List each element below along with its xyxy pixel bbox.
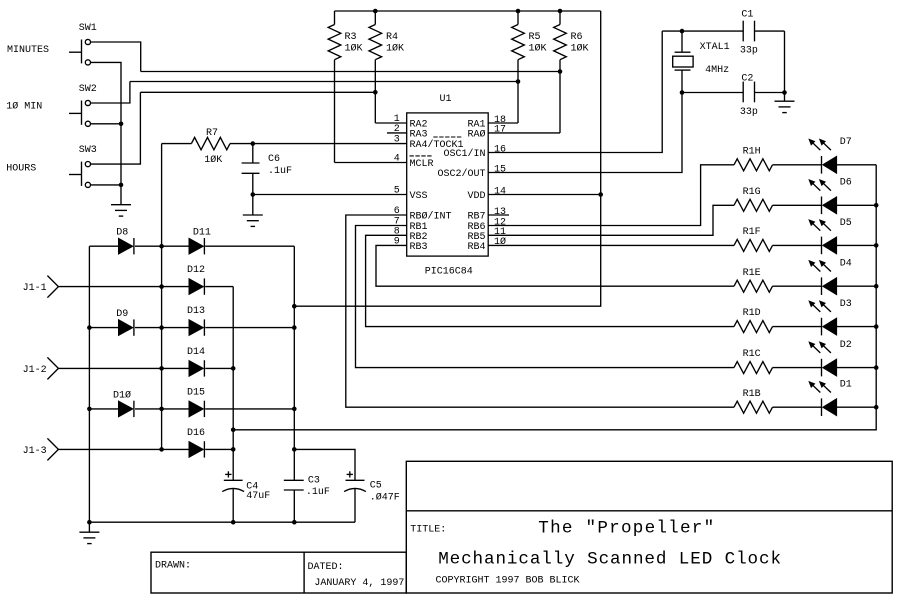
label C4 value [246,491,270,502]
ground [243,215,263,226]
pin number 1 [394,114,400,125]
wire D3 to LED bus [837,326,876,328]
junction [874,405,879,410]
LED D1 [822,398,837,416]
svg-text:15: 15 [494,164,506,175]
svg-text:R7: R7 [206,128,218,139]
label D15 [187,387,205,398]
junction [231,520,236,525]
label C2 [741,74,753,85]
wire R6 to RA0 pin17 [488,132,560,134]
label C6 value [268,166,292,177]
svg-text:MCLR: MCLR [410,159,434,170]
wire left anode bus [88,246,90,522]
junction [231,366,236,371]
wire ground bus [89,521,355,523]
wire R1D to D3 [773,326,822,328]
overline MCLR [410,155,434,157]
svg-text:COPYRIGHT 1997 BOB BLICK: COPYRIGHT 1997 BOB BLICK [436,576,580,587]
wire R4 to RA2 pin1 [375,122,406,124]
op-amp U1 PIC16C84 body [407,113,489,256]
resistor R1D [734,321,773,333]
wire RB7 pin13 stub [488,214,509,216]
svg-text:PIC16C84: PIC16C84 [425,267,473,278]
wire VDD vertical [293,246,295,480]
label D9 [116,309,128,320]
junction [680,29,685,34]
svg-text:SW3: SW3 [79,145,97,156]
pin number 14 [494,186,506,197]
svg-text:3: 3 [394,135,400,146]
label C5 [370,481,382,492]
svg-text:R1H: R1H [743,146,761,157]
svg-text:RB3: RB3 [410,242,428,253]
label U1 [440,94,452,105]
svg-text:HOURS: HOURS [6,164,36,175]
pin name OSC2/OUT [437,168,485,180]
svg-text:C3: C3 [308,475,320,486]
crystal XTAL1 [673,31,693,92]
svg-text:R5: R5 [529,32,541,43]
wire R3 to MCLR pin4 [335,162,407,164]
svg-text:OSC2/OUT: OSC2/OUT [437,168,485,180]
LED D3 [822,318,837,336]
svg-text:R3: R3 [345,32,357,43]
pin name MCLR [410,159,434,170]
pin number 8 [394,226,400,237]
svg-text:RA3: RA3 [410,129,428,140]
wire SW1 bottom contact [91,62,122,204]
junction [373,9,378,14]
label SW1 [79,23,97,34]
capacitor C4 [222,480,244,522]
svg-text:VSS: VSS [410,191,428,202]
svg-text:1ØK: 1ØK [204,154,222,166]
pin number 9 [394,236,400,247]
svg-text:D9: D9 [116,309,128,320]
ground [775,101,795,112]
wire R5 to RA1 pin18 [488,122,518,124]
pin name RB2 [410,232,428,243]
label R7 [206,128,218,139]
pin name RA0 [467,128,485,140]
svg-text:1ØK: 1ØK [386,43,404,55]
drawn-dated box [151,552,406,593]
diode D8 [118,238,134,254]
label C2 value [740,107,758,118]
wire R1F to D5 [773,244,822,246]
pin name VDD [467,191,485,202]
junction [159,284,164,289]
svg-text:D15: D15 [187,387,205,398]
svg-text:R6: R6 [571,32,583,43]
pin number 4 [394,154,400,165]
wire D2 to LED bus [837,367,876,369]
svg-text:RB4: RB4 [467,242,485,253]
LED D2 [822,359,837,377]
pin name RB3 [410,242,428,253]
label R4 value [386,43,404,55]
svg-text:4: 4 [394,154,400,165]
wire net SW2 to R5 [130,81,518,83]
wire RB0 to R1B row [346,215,734,407]
junction [558,9,563,14]
pin name RB6 [467,222,485,233]
svg-text:DATED:: DATED: [308,562,344,573]
wire D11 cathode [205,245,294,247]
pin number 12 [494,217,506,228]
pin name RB5 [467,232,485,243]
junction [231,428,236,433]
label D2 [840,340,852,351]
label HOURS [6,164,36,175]
LED D4 [822,277,837,295]
resistor R4 [369,11,382,123]
label R1E [743,268,761,279]
svg-text:RB7: RB7 [467,212,485,223]
svg-text:17: 17 [494,125,506,136]
svg-text:C6: C6 [268,154,280,165]
svg-text:D3: D3 [840,299,852,310]
pin name RA3 [410,129,428,140]
svg-text:R1E: R1E [743,268,761,279]
junction [558,69,563,74]
wire R1B to D1 [773,406,822,408]
label D13 [187,306,205,317]
title Mechanically Scanned LED Clock [438,550,782,570]
label D16 [187,428,205,439]
wire VSS pin5 [253,194,407,196]
wire D9 to mid bus [135,327,189,329]
label C5 plus [347,471,353,477]
junction [292,407,297,412]
svg-text:VDD: VDD [467,191,485,202]
svg-text:.1uF: .1uF [268,166,292,177]
pin number 7 [394,217,400,228]
svg-text:C1: C1 [741,9,753,20]
junction [874,203,879,208]
wire D4 to LED bus [837,285,876,287]
LED D7 arrows [808,139,831,151]
svg-text:4MHz: 4MHz [705,65,729,76]
switch SW2 [69,100,91,126]
diode D12 [189,278,205,294]
label 4MHz [705,65,729,76]
wire RA3 pin2 stub [387,132,407,134]
pin name RA1 [467,120,485,131]
label MINUTES [7,45,49,56]
svg-text:J1-3: J1-3 [23,446,47,457]
pin number 13 [494,207,506,218]
LED D2 arrows [808,341,831,353]
pin name RA4/TOCK1 [410,139,464,151]
svg-text:.Ø47F: .Ø47F [370,492,400,504]
wire RB1 to R1C row [356,226,735,368]
svg-text:XTAL1: XTAL1 [700,42,730,53]
wire VDD top bus [335,10,601,12]
wire D5 to LED bus [837,244,876,246]
capacitor C1 [743,21,754,42]
svg-text:The "Propeller": The "Propeller" [538,518,715,538]
svg-text:D5: D5 [840,218,852,229]
wire bus to D8 [89,245,118,247]
svg-text:47uF: 47uF [246,491,270,502]
resistor R1E [734,280,773,292]
junction [292,325,297,330]
ground [111,205,131,216]
svg-text:13: 13 [494,207,506,218]
wire RB5 to R1G row [488,205,734,235]
wire C2 to right [755,92,785,94]
svg-text:R4: R4 [386,32,398,43]
label J1-1 [23,283,47,294]
wire D6 to LED bus [837,204,876,206]
pin name OSC1/IN [443,148,485,160]
wire D1 to LED bus [837,406,876,408]
junction [87,520,92,525]
label C3 value [306,487,330,498]
resistor R3 [328,11,341,163]
resistor R1C [734,362,773,374]
svg-text:R1F: R1F [743,227,761,238]
wire LED supply vertical [232,287,234,481]
label R5 [529,32,541,43]
svg-text:RBØ/INT: RBØ/INT [410,211,452,223]
label R1D [743,308,761,319]
wire D12 cathode [205,286,233,288]
svg-text:1ØK: 1ØK [571,43,589,55]
junction [782,90,787,95]
svg-text:.1uF: .1uF [306,487,330,498]
wire D15 cathode [205,408,294,410]
svg-text:16: 16 [494,144,506,155]
svg-text:C5: C5 [370,481,382,492]
connector J1-1 [47,276,58,298]
diode D9 [118,319,134,335]
junction [373,90,378,95]
svg-text:SW2: SW2 [79,84,97,95]
label D5 [840,218,852,229]
junction [251,192,256,197]
resistor R7 [162,137,253,149]
svg-text:RAØ: RAØ [467,128,485,140]
wire R1G to D6 [773,204,822,206]
pin number 6 [394,206,400,217]
svg-text:R1B: R1B [743,389,761,400]
label SW2 [79,84,97,95]
LED D5 [822,237,837,255]
wire R1H to D7 [773,164,822,166]
wire SW1 top contact to net SW1 [91,42,141,72]
connector J1-2 [47,357,58,379]
pin number 11 [494,227,506,238]
svg-text:JANUARY 4, 1997: JANUARY 4, 1997 [314,578,404,589]
junction [292,304,297,309]
wire SW3 bottom contact [91,184,122,186]
svg-text:14: 14 [494,186,506,197]
label D12 [187,265,205,276]
connector J1-3 [47,438,58,460]
label D10 [113,389,131,401]
junction [874,243,879,248]
label C1 value [740,46,758,57]
junction [598,192,603,197]
title block frame [406,461,892,593]
pin number 16 [494,144,506,155]
label 10 MIN [6,101,42,113]
wire mid cathode bus [161,144,163,450]
label XTAL1 [700,42,730,53]
ground [79,532,99,543]
svg-text:1Ø MIN: 1Ø MIN [6,101,42,113]
svg-text:D2: D2 [840,340,852,351]
svg-text:D14: D14 [187,347,205,358]
svg-text:C2: C2 [741,74,753,85]
pin name RA2 [410,120,428,131]
label D1 [840,380,852,391]
label R3 value [345,43,363,55]
junction [231,447,236,452]
wire D10 to mid bus [135,408,189,410]
label R3 [345,32,357,43]
svg-text:R1G: R1G [743,187,761,198]
pin number 3 [394,135,400,146]
wire RB3 to R1E row [376,245,734,286]
svg-text:1ØK: 1ØK [529,43,547,55]
label C5 value [370,492,400,504]
overline TOCK1 [433,136,462,138]
svg-text:5: 5 [394,186,400,197]
svg-text:1Ø: 1Ø [494,236,506,248]
pin number 2 [394,124,400,135]
label C4 plus [225,471,231,477]
pin name RB1 [410,222,428,233]
junction [159,447,164,452]
capacitor C3 [284,480,304,522]
svg-text:1ØK: 1ØK [345,43,363,55]
wire D7 to LED bus [837,164,876,166]
svg-text:SW1: SW1 [79,23,97,34]
junction [292,520,297,525]
diode D11 [189,238,205,254]
LED D1 arrows [808,381,831,393]
wire OSC2 pin15 to crystal [488,93,682,173]
label D3 [840,299,852,310]
LED D6 [822,197,837,215]
wire crystal bottom node [682,92,743,94]
svg-text:D12: D12 [187,265,205,276]
junction [87,407,92,412]
svg-text:D16: D16 [187,428,205,439]
svg-text:J1-1: J1-1 [23,283,47,294]
junction [874,324,879,329]
wire C1 to right [755,30,785,32]
label SW3 [79,145,97,156]
junction [119,183,124,188]
pin name RB7 [467,212,485,223]
wire net SW1 to R6 [141,71,560,73]
label J1-3 [23,446,47,457]
junction [680,90,685,95]
diode D16 [189,441,205,457]
wire VDD pin14 [488,194,601,196]
label R4 [386,32,398,43]
wire R7 to RA4 pin3 [253,143,407,145]
capacitor C2 [743,82,754,103]
svg-text:33p: 33p [740,107,758,118]
junction [159,244,164,249]
svg-text:R1D: R1D [743,308,761,319]
resistor R1F [734,239,773,251]
pin name RB4 [467,242,485,253]
LED D4 arrows [808,260,831,272]
LED D5 arrows [808,219,831,231]
junction [87,325,92,330]
svg-text:33p: 33p [740,46,758,57]
svg-text:D1Ø: D1Ø [113,389,131,401]
LED D3 arrows [808,300,831,312]
wire to C5 [294,449,355,480]
label TITLE [410,524,446,535]
LED D7 [822,156,837,174]
wire D13 cathode [205,327,294,329]
wire J1-1 to mid bus [58,286,188,288]
svg-text:D8: D8 [116,228,128,239]
pin number 15 [494,164,506,175]
svg-text:D13: D13 [187,306,205,317]
svg-text:TITLE:: TITLE: [410,524,446,535]
wire VDD bus vertical [294,11,600,306]
wire RB6 to R1H row [488,165,734,226]
wire crystal top node [662,30,743,32]
label D8 [116,228,128,239]
resistor R1B [734,401,773,413]
svg-text:D4: D4 [840,259,852,270]
label DATED [308,562,344,573]
label C6 [268,154,280,165]
junction [874,365,879,370]
diode D15 [189,401,205,417]
wire right vertical [784,31,786,101]
wire J1-2 to mid bus [58,367,188,369]
wire D8 to mid bus [135,245,189,247]
label R1G [743,187,761,198]
label R6 [571,32,583,43]
wire SW3 top contact to net SW3 [91,92,141,164]
wire bus to D10 [89,408,118,410]
label R1H [743,146,761,157]
wire LED anode bus [233,165,876,430]
capacitor C6 [242,144,260,215]
label C3 [308,475,320,486]
svg-text:OSC1/IN: OSC1/IN [443,148,485,160]
svg-text:DRAWN:: DRAWN: [155,560,191,571]
wire RB2 to R1D row [366,235,734,326]
resistor R1G [734,199,773,211]
diode D13 [189,319,205,335]
label D14 [187,347,205,358]
svg-text:J1-2: J1-2 [23,365,47,376]
switch SW1 [69,39,91,65]
LED D6 arrows [808,179,831,191]
title The Propeller [538,518,715,538]
pin number 17 [494,125,506,136]
label date [314,578,404,589]
wire SW2 bottom contact [91,123,122,125]
svg-text:D7: D7 [840,137,852,148]
label D6 [840,178,852,189]
label C1 [741,9,753,20]
